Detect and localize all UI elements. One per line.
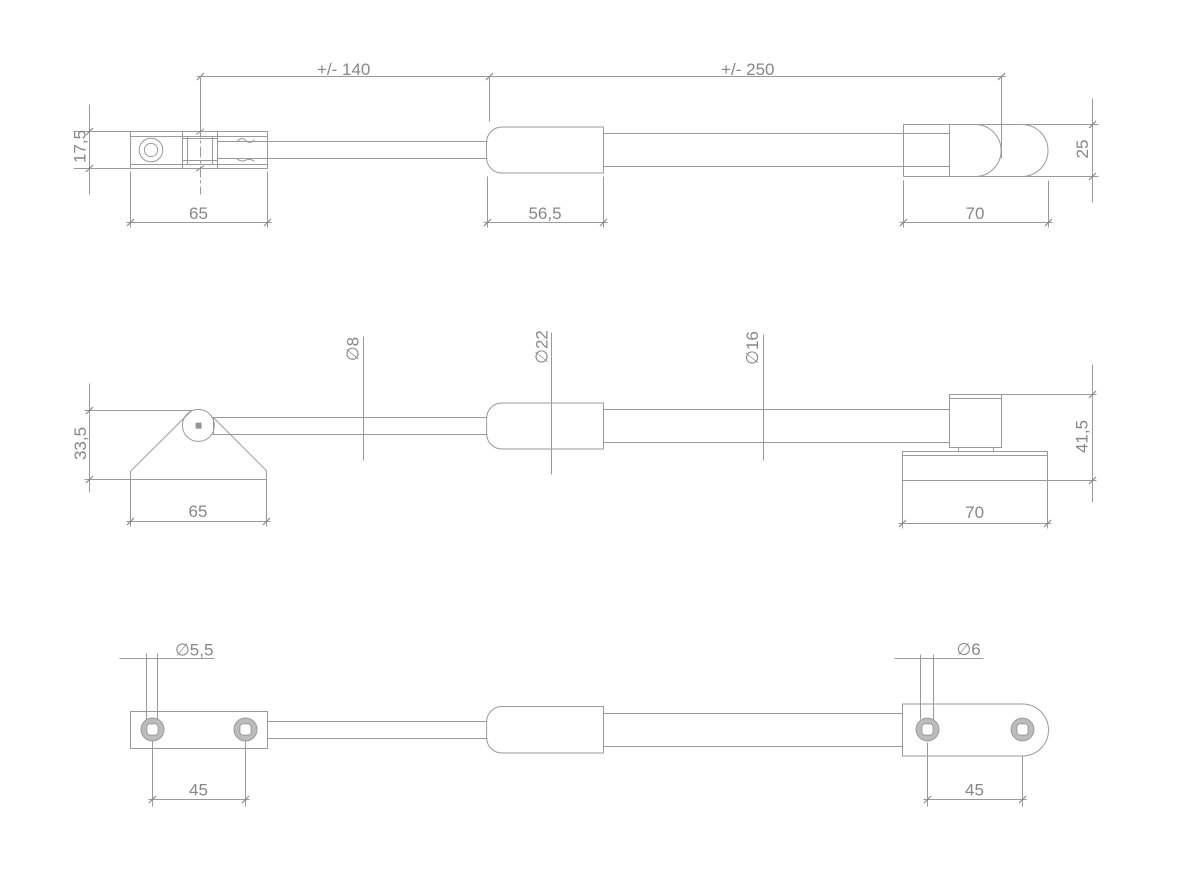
- svg-text:65: 65: [189, 204, 208, 223]
- triangle bracket base line: [131, 479, 267, 481]
- piston rod bottom line (side view): [213, 434, 488, 436]
- pivot centre dot: [196, 423, 202, 429]
- dim 33.5 dimension line: [89, 384, 91, 493]
- dim 45 left tick left: [149, 796, 156, 803]
- piston rod bottom line (bottom view): [268, 738, 488, 740]
- dim 65 right extension line (middle view): [266, 480, 268, 527]
- diameter 8 extension line: [363, 337, 365, 461]
- plate bottom extension line for dim 41.5: [1048, 480, 1097, 482]
- dim 17.5 tick top: [86, 128, 93, 135]
- fork vertical left inner: [187, 137, 189, 165]
- end fitting block (side view): [950, 395, 1002, 448]
- dim 33.5 tick top: [86, 407, 93, 414]
- end fitting left edge: [903, 125, 905, 177]
- centreline tick on top edge: [196, 129, 204, 135]
- hole left-1 ring: [141, 718, 164, 741]
- centreline tick on bottom edge: [196, 166, 204, 172]
- cylinder tube bottom line (bottom view): [604, 746, 903, 748]
- clevis bracket outer rectangle (top view): [131, 132, 268, 169]
- end plate (bottom view right): [903, 704, 1049, 756]
- dim 45 dimension line (left): [149, 799, 250, 801]
- clevis bracket inner bottom line: [131, 164, 268, 166]
- svg-text:25: 25: [1073, 140, 1092, 159]
- dim 45 left tick right: [242, 796, 249, 803]
- piston rod bottom line (top view): [218, 158, 488, 160]
- base plate outer rectangle: [903, 452, 1048, 481]
- dimension tick at clevis pivot: [197, 73, 204, 80]
- dim 17.5 bottom extension line: [74, 168, 131, 170]
- dim 70 tick right: [1045, 219, 1052, 226]
- dim 45 right extension line (left): [927, 743, 929, 807]
- dim 56.5 right extension line: [603, 177, 605, 228]
- dim 41.5 tick bottom: [1089, 477, 1096, 484]
- dim 45 left extension line (left): [152, 742, 154, 807]
- rod clip detail bottom: [237, 159, 255, 161]
- dim 41.5 dimension line: [1092, 365, 1094, 503]
- pivot circle: [182, 409, 214, 441]
- dim 65 dimension line (middle view): [127, 521, 271, 523]
- hole right-1 square opening: [922, 724, 933, 735]
- dim 25 tick top: [1089, 121, 1096, 128]
- fork vertical right inner: [212, 137, 214, 165]
- clevis bracket inner top line: [131, 136, 268, 138]
- connector tick left: [958, 448, 960, 452]
- dim 70 dimension line (middle view): [899, 523, 1052, 525]
- dim 25 tick bottom: [1089, 173, 1096, 180]
- dim 70 left extension line (top view): [903, 181, 905, 228]
- end fitting block inner top line: [950, 398, 1002, 400]
- dim 25 dimension line: [1092, 99, 1094, 203]
- dim 70 tick right (middle): [1044, 520, 1051, 527]
- block top extension line for dim 41.5: [1002, 394, 1097, 396]
- svg-text:45: 45: [965, 781, 984, 800]
- diameter 6 leader line: [895, 658, 984, 660]
- svg-text:56,5: 56,5: [528, 204, 561, 223]
- svg-text:70: 70: [965, 503, 984, 522]
- hole left-2 ring: [234, 718, 257, 741]
- svg-text:+/- 250: +/- 250: [721, 60, 774, 79]
- rod clip detail top: [237, 139, 255, 143]
- svg-text:+/- 140: +/- 140: [317, 60, 370, 79]
- cylinder body (bottom view): [487, 707, 604, 754]
- diameter 6 tangent line right: [933, 655, 935, 720]
- svg-text:33,5: 33,5: [71, 427, 90, 460]
- cylinder tube bottom line (side view): [604, 442, 950, 444]
- dim 33.5 tick bottom: [86, 476, 93, 483]
- diameter 22 extension line: [551, 333, 553, 475]
- extension line from clevis pivot (centreline): [200, 77, 202, 129]
- extension line at body left: [489, 77, 491, 122]
- svg-text:17,5: 17,5: [71, 130, 90, 163]
- dim 70 right extension line (top view): [1048, 181, 1050, 228]
- dim 65 dimension line (top view): [127, 222, 272, 224]
- end fitting outer end arc: [1022, 125, 1048, 177]
- svg-text:70: 70: [966, 204, 985, 223]
- diameter 5.5 tangent line right: [157, 654, 159, 720]
- dim 65 left extension line (top view): [130, 172, 132, 228]
- piston rod top line (side view): [212, 417, 488, 419]
- hole right-2 ring: [1011, 718, 1034, 741]
- dimension tick at body left: [486, 73, 493, 80]
- dim 33.5 top extension line: [85, 410, 192, 412]
- cylinder tube bottom line (top view): [604, 166, 950, 168]
- dim 33.5 bottom extension line: [85, 479, 131, 481]
- triangle bracket left vertical edge: [130, 472, 132, 480]
- end fitting inner socket arc: [975, 125, 1001, 177]
- hole right-1 ring: [916, 718, 939, 741]
- dim 70 left extension line (middle view): [902, 481, 904, 529]
- dim 70 dimension line (top view): [900, 222, 1053, 224]
- dim 65 right extension line (top view): [267, 172, 269, 228]
- dim 65 left extension line (middle view): [130, 480, 132, 527]
- dim 65 tick right: [264, 219, 271, 226]
- dim 70 tick left: [900, 219, 907, 226]
- dim 45 left extension line (right): [245, 742, 247, 807]
- dim 45 right tick left: [924, 796, 931, 803]
- base plate inner line: [903, 455, 1048, 457]
- rod end vertical (side view): [213, 418, 215, 435]
- diameter 16 extension line: [763, 335, 765, 461]
- dim 45 right tick right: [1019, 796, 1026, 803]
- dim 56.5 tick left: [484, 219, 491, 226]
- clevis eyelet inner circle: [144, 143, 157, 156]
- dim 65 tick left: [127, 219, 134, 226]
- dim 65 tick left (middle): [127, 518, 134, 525]
- triangle bracket right slope: [213, 417, 266, 470]
- fork vertical left outer: [182, 132, 184, 169]
- dim 56.5 dimension line: [484, 222, 608, 224]
- diameter 5.5 tangent line left: [146, 654, 148, 720]
- dim 45 right extension line (right): [1022, 756, 1024, 807]
- end fitting top edge with extension: [904, 124, 1099, 126]
- svg-text:65: 65: [189, 502, 208, 521]
- diameter 5.5 leader line: [120, 658, 215, 660]
- dim 70 tick left (middle): [899, 520, 906, 527]
- dim 56.5 left extension line: [487, 177, 489, 228]
- dim 70 right extension line (middle view): [1047, 481, 1049, 529]
- svg-text:∅6: ∅6: [957, 640, 981, 659]
- extension line at end eye centre: [1001, 77, 1003, 159]
- dim 17.5 tick bottom: [86, 165, 93, 172]
- clevis eyelet outer circle: [139, 138, 163, 162]
- cylinder tube top line (bottom view): [604, 713, 903, 715]
- dim 56.5 tick right: [600, 219, 607, 226]
- hole right-2 square opening: [1017, 724, 1028, 735]
- piston rod top line (top view): [218, 141, 488, 143]
- dim 17.5 dimension line: [89, 105, 91, 195]
- cylinder tube top line (side view): [604, 409, 950, 411]
- cylinder tube top line (top view): [604, 133, 950, 135]
- dimension line for +/- 140 and +/- 250: [197, 76, 1006, 78]
- dim 17.5 top extension line: [74, 131, 131, 133]
- svg-text:45: 45: [189, 781, 208, 800]
- cylinder body (top view): [487, 127, 604, 173]
- svg-text:∅8: ∅8: [343, 337, 362, 361]
- svg-text:∅5,5: ∅5,5: [175, 641, 213, 660]
- dim 65 tick right (middle): [263, 518, 270, 525]
- dim 41.5 tick top: [1089, 391, 1096, 398]
- svg-text:∅16: ∅16: [743, 331, 762, 365]
- tube end inside fitting: [949, 125, 951, 177]
- connector tick right: [993, 448, 995, 452]
- end fitting bottom edge with extension: [904, 176, 1099, 178]
- hole left-2 square opening: [240, 724, 251, 735]
- diameter 6 tangent line left: [920, 655, 922, 720]
- hole left-1 square opening: [147, 724, 158, 735]
- cylinder body (side view): [487, 403, 604, 449]
- dim 45 dimension line (right): [924, 799, 1027, 801]
- dimension tick at end eye centre: [998, 73, 1005, 80]
- fork horizontal top: [183, 138, 218, 140]
- svg-text:41,5: 41,5: [1073, 420, 1092, 453]
- triangle bracket right vertical edge: [266, 471, 268, 480]
- mounting plate (bottom view left): [131, 712, 268, 749]
- piston rod top line (bottom view): [268, 721, 488, 723]
- triangle bracket left slope: [130, 410, 192, 472]
- fork vertical right outer: [217, 132, 219, 169]
- pivot centreline (dash-dot): [200, 107, 202, 195]
- fork horizontal bottom: [183, 160, 218, 162]
- svg-text:∅22: ∅22: [533, 330, 552, 364]
